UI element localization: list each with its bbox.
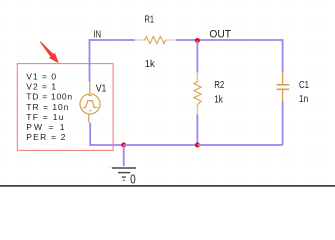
junction dot at OUT node xyxy=(195,38,200,43)
wire ground stub xyxy=(123,145,125,166)
svg-text:R2: R2 xyxy=(214,80,224,91)
wire V1 bottom to ground rail xyxy=(90,123,124,145)
ground symbol xyxy=(112,168,136,180)
svg-text:R1: R1 xyxy=(145,14,155,26)
svg-text:V1 = 0: V1 = 0 xyxy=(26,71,56,81)
wire OUT junction to R2 xyxy=(196,41,198,73)
wire ground rail (stub to R2) xyxy=(124,144,198,146)
separator line xyxy=(0,185,335,186)
svg-text:1n: 1n xyxy=(299,94,308,105)
svg-text:TR = 10n: TR = 10n xyxy=(26,102,68,112)
wire R2 to ground rail xyxy=(196,114,198,145)
junction dot at ground stub xyxy=(121,143,126,148)
wire R1 to OUT junction xyxy=(176,39,197,41)
junction dot at R2 bottom xyxy=(195,143,200,148)
wire ground rail (R2 to C1) xyxy=(197,144,282,146)
svg-text:IN: IN xyxy=(94,30,102,41)
svg-text:V1: V1 xyxy=(96,84,107,95)
svg-text:1k: 1k xyxy=(214,95,223,106)
svg-text:1k: 1k xyxy=(145,59,156,70)
capacitor C1 xyxy=(277,72,290,101)
svg-text:V2 = 1: V2 = 1 xyxy=(26,82,56,92)
resistor R2 xyxy=(194,72,201,114)
annotation arrow xyxy=(40,42,59,64)
resistor R1 xyxy=(135,36,177,43)
wire IN (V1 top to R1) xyxy=(90,40,135,82)
svg-text:PER = 2: PER = 2 xyxy=(26,132,65,142)
voltage source V1 xyxy=(80,82,100,123)
svg-text:TD = 100n: TD = 100n xyxy=(26,92,72,102)
wire OUT (junction to C1 top) xyxy=(197,40,282,73)
svg-text:C1: C1 xyxy=(299,80,309,91)
svg-text:TF = 1u: TF = 1u xyxy=(26,112,63,122)
wire C1 to ground rail xyxy=(282,101,284,145)
parameter box xyxy=(17,64,113,151)
svg-text:0: 0 xyxy=(130,173,136,187)
svg-text:OUT: OUT xyxy=(209,29,231,41)
